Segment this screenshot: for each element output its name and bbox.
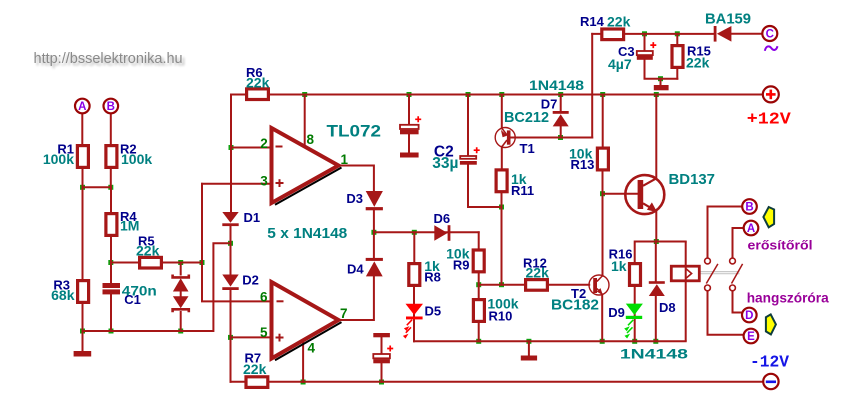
- svg-text:5: 5: [260, 325, 268, 340]
- svg-text:1N4148: 1N4148: [620, 346, 688, 362]
- svg-text:D4: D4: [347, 262, 364, 277]
- svg-text:2: 2: [260, 136, 268, 151]
- svg-text:D5: D5: [425, 303, 442, 318]
- svg-text:22k: 22k: [136, 243, 160, 259]
- svg-text:6: 6: [260, 289, 268, 304]
- svg-text:+12V: +12V: [747, 111, 792, 130]
- svg-text:hangszóróra: hangszóróra: [747, 289, 829, 305]
- svg-text:8: 8: [307, 132, 315, 147]
- svg-text:1: 1: [341, 152, 349, 167]
- svg-text:D8: D8: [659, 300, 676, 315]
- svg-text:1N4148: 1N4148: [529, 77, 584, 93]
- svg-text:470n: 470n: [122, 283, 157, 299]
- svg-text:22k: 22k: [246, 75, 270, 91]
- svg-text:BA159: BA159: [705, 11, 751, 28]
- svg-text:5 x 1N4148: 5 x 1N4148: [267, 225, 347, 242]
- svg-text:22k: 22k: [686, 55, 710, 71]
- svg-text:B: B: [745, 202, 753, 214]
- svg-text:4µ7: 4µ7: [608, 56, 632, 72]
- svg-text:100k: 100k: [121, 151, 152, 167]
- svg-text:100k: 100k: [487, 296, 518, 312]
- svg-text:C: C: [766, 29, 774, 41]
- svg-text:100k: 100k: [43, 151, 74, 167]
- svg-text:BC212: BC212: [504, 109, 549, 126]
- svg-text:T1: T1: [520, 141, 535, 156]
- svg-text:D1: D1: [244, 210, 261, 225]
- svg-text:BD137: BD137: [669, 171, 716, 188]
- svg-text:10k: 10k: [569, 146, 593, 162]
- svg-text:-12V: -12V: [750, 353, 790, 372]
- svg-text:TL072: TL072: [327, 123, 382, 141]
- svg-text:A: A: [747, 223, 755, 235]
- svg-text:D6: D6: [434, 211, 451, 226]
- svg-text:33µ: 33µ: [432, 155, 458, 172]
- svg-text:E: E: [747, 331, 755, 343]
- svg-text:1k: 1k: [424, 258, 440, 274]
- svg-text:1k: 1k: [511, 171, 527, 187]
- svg-text:D3: D3: [346, 191, 363, 206]
- svg-text:4: 4: [308, 341, 316, 356]
- svg-text:7: 7: [340, 306, 348, 321]
- svg-text:1M: 1M: [120, 218, 139, 234]
- svg-text:http://bsselektronika.hu: http://bsselektronika.hu: [34, 51, 183, 67]
- svg-text:22k: 22k: [526, 265, 550, 281]
- svg-text:D2: D2: [242, 273, 259, 288]
- svg-text:1k: 1k: [611, 258, 627, 274]
- svg-text:BC182: BC182: [551, 297, 599, 314]
- svg-text:22k: 22k: [607, 14, 631, 30]
- svg-text:10k: 10k: [446, 246, 470, 262]
- svg-text:68k: 68k: [51, 287, 75, 303]
- svg-text:22k: 22k: [243, 361, 267, 377]
- svg-text:A: A: [78, 101, 86, 113]
- svg-text:R14: R14: [580, 14, 605, 29]
- svg-text:3: 3: [260, 173, 268, 188]
- svg-text:B: B: [107, 101, 115, 113]
- svg-text:D9: D9: [608, 305, 625, 320]
- svg-text:D: D: [745, 310, 753, 322]
- svg-text:erősítőről: erősítőről: [748, 238, 813, 253]
